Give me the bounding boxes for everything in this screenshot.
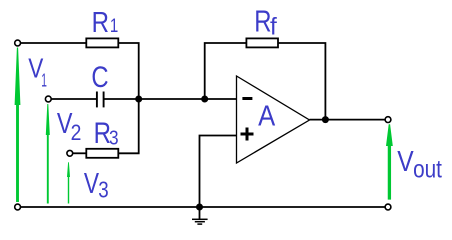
svg-text:A: A bbox=[258, 100, 275, 132]
terminal V2 input bbox=[45, 96, 51, 102]
resistor Rf bbox=[246, 38, 278, 47]
svg-text:R: R bbox=[92, 6, 109, 39]
resistor R3 bbox=[86, 149, 118, 158]
label A (op-amp gain) bbox=[258, 100, 275, 132]
label V2 bbox=[57, 107, 73, 140]
op-amp plus sign bbox=[241, 128, 254, 141]
svg-text:1: 1 bbox=[110, 14, 118, 36]
arrow V2 source bbox=[46, 104, 50, 204]
op-amp minus sign bbox=[242, 97, 252, 100]
wire top-left from V1 terminal to R1 bbox=[21, 42, 87, 44]
svg-text:V: V bbox=[397, 145, 414, 177]
capacitor C bbox=[97, 92, 104, 108]
label Vout bbox=[397, 145, 414, 177]
label V3 bbox=[84, 169, 100, 200]
arrow Vout bbox=[386, 124, 393, 199]
terminal bottom-right common bbox=[385, 204, 391, 210]
junction node at inverting input / feedback bbox=[201, 96, 208, 103]
svg-text:2: 2 bbox=[71, 121, 82, 145]
wire from R1 right down to R3 right (vertical x=138.7) bbox=[118, 43, 138, 153]
wire op-amp output to Vout terminal bbox=[310, 119, 386, 121]
arrow V3 source bbox=[67, 162, 70, 203]
svg-text:f: f bbox=[270, 14, 277, 41]
junction node at R1/C/R3 join bbox=[135, 96, 142, 103]
label R3 bbox=[94, 117, 111, 150]
junction node at ground rail bbox=[196, 204, 203, 211]
terminal V1 input bbox=[15, 40, 21, 46]
junction node at output / feedback bbox=[322, 116, 329, 123]
terminal bottom-left common bbox=[15, 204, 21, 210]
label C bbox=[91, 59, 108, 93]
op-amp U1 triangle bbox=[237, 76, 310, 163]
wire op-amp non-inverting input down to ground rail bbox=[200, 136, 237, 208]
wire feedback right: Rf to output node bbox=[278, 43, 325, 120]
svg-text:C: C bbox=[91, 59, 108, 93]
wire feedback left: node to Rf bbox=[205, 43, 247, 99]
wire bottom rail bbox=[21, 206, 386, 208]
wire from capacitor to op-amp inverting input bbox=[104, 98, 236, 100]
svg-text:3: 3 bbox=[109, 126, 119, 149]
svg-text:3: 3 bbox=[98, 178, 108, 203]
wire from V3 terminal to R3 bbox=[73, 152, 87, 154]
resistor R1 bbox=[86, 38, 118, 47]
svg-text:out: out bbox=[413, 155, 442, 183]
label V1 bbox=[28, 53, 43, 84]
svg-text:R: R bbox=[254, 4, 271, 38]
label Rf bbox=[254, 4, 271, 38]
ground bbox=[192, 207, 208, 224]
label R1 bbox=[92, 6, 109, 39]
wire from V2 terminal to capacitor bbox=[51, 98, 96, 100]
terminal V3 input bbox=[67, 150, 73, 156]
arrow V1 source bbox=[15, 48, 21, 203]
terminal Vout bbox=[385, 117, 391, 123]
svg-text:1: 1 bbox=[41, 70, 47, 91]
